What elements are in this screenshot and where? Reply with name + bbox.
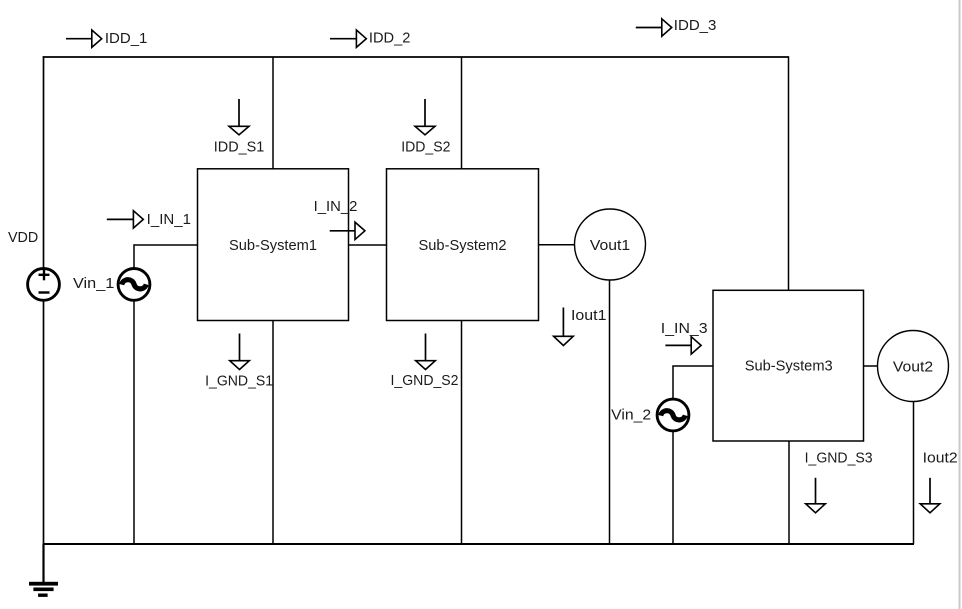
wire feed Sub-System1 top — [272, 57, 274, 169]
svg-text:IDD_S1: IDD_S1 — [214, 139, 264, 156]
svg-text:Iout2: Iout2 — [923, 449, 958, 466]
wire Vin_2 to Sub-System3 input — [673, 366, 713, 398]
source Vin_2 (AC) — [657, 399, 689, 431]
svg-text:I_IN_3: I_IN_3 — [661, 320, 708, 337]
svg-text:Vin_2: Vin_2 — [611, 406, 651, 423]
block Sub-System2 — [387, 169, 539, 321]
svg-text:I_GND_S1: I_GND_S1 — [205, 373, 273, 390]
wire feed Sub-System2 top — [461, 57, 463, 169]
svg-text:Vout2: Vout2 — [893, 358, 933, 375]
current arrow IDD_1 — [66, 30, 102, 47]
svg-text:I_IN_2: I_IN_2 — [314, 198, 358, 215]
page border right edge — [959, 0, 961, 609]
wire Vin_1 to Sub-System1 input — [134, 245, 198, 268]
svg-text:Iout1: Iout1 — [571, 307, 607, 324]
wire ground rail bottom — [43, 543, 914, 545]
wire VDD left vertical lower — [43, 301, 45, 545]
wire Sub-System1 out to Sub-System2 in — [349, 244, 387, 246]
wire VDD left vertical upper — [43, 56, 45, 267]
block Sub-System3 — [713, 290, 864, 441]
source Vin_1 (AC) — [118, 269, 150, 301]
wire VDD top rail — [43, 56, 789, 58]
current arrow I_GND_S3 — [806, 478, 826, 513]
current arrow I_IN_2 — [330, 222, 365, 239]
svg-text:Sub-System1: Sub-System1 — [229, 237, 317, 254]
wire Sub-System1 bottom to rail — [272, 321, 274, 545]
svg-text:VDD: VDD — [8, 229, 38, 246]
svg-text:I_GND_S3: I_GND_S3 — [805, 449, 873, 466]
wire Vin_2 bottom to rail — [672, 432, 674, 544]
wire Vin_1 bottom to rail — [133, 301, 135, 545]
svg-text:I_IN_1: I_IN_1 — [147, 211, 191, 228]
svg-text:I_GND_S2: I_GND_S2 — [391, 372, 459, 389]
svg-text:IDD_1: IDD_1 — [105, 30, 147, 47]
svg-text:IDD_S2: IDD_S2 — [401, 139, 450, 156]
wire Sub-System2 out to Vout1 — [539, 244, 575, 246]
block Sub-System1 — [198, 169, 349, 321]
svg-text:Sub-System3: Sub-System3 — [745, 358, 833, 375]
svg-text:Vin_1: Vin_1 — [73, 275, 114, 292]
wire Sub-System3 bottom to rail — [788, 441, 790, 544]
wire Vout2 bottom to rail — [913, 402, 915, 545]
current arrow IDD_S2 — [415, 99, 435, 135]
svg-text:Vout1: Vout1 — [590, 237, 630, 254]
svg-text:IDD_2: IDD_2 — [369, 30, 411, 47]
ground — [29, 544, 58, 597]
wire Sub-System2 bottom to rail — [461, 321, 463, 545]
source VDD (DC supply) — [28, 269, 60, 301]
current arrow Iout2 — [920, 478, 940, 513]
current arrow I_GND_S2 — [416, 334, 436, 370]
current arrow I_IN_3 — [665, 337, 701, 354]
svg-text:Sub-System2: Sub-System2 — [419, 237, 507, 254]
wire Sub-System3 out to Vout2 — [864, 365, 878, 367]
current arrow IDD_2 — [330, 30, 366, 47]
current arrow IDD_S1 — [229, 99, 249, 135]
wire feed Sub-System3 right drop — [788, 56, 790, 290]
probe Vout2 — [878, 331, 949, 402]
current arrow IDD_3 — [636, 19, 672, 36]
wire Vout1 bottom to rail — [609, 280, 611, 544]
svg-text:IDD_3: IDD_3 — [674, 17, 717, 34]
probe Vout1 — [575, 209, 646, 280]
current arrow I_IN_1 — [107, 211, 144, 228]
current arrow I_GND_S1 — [230, 334, 250, 370]
current arrow Iout1 — [554, 308, 574, 346]
